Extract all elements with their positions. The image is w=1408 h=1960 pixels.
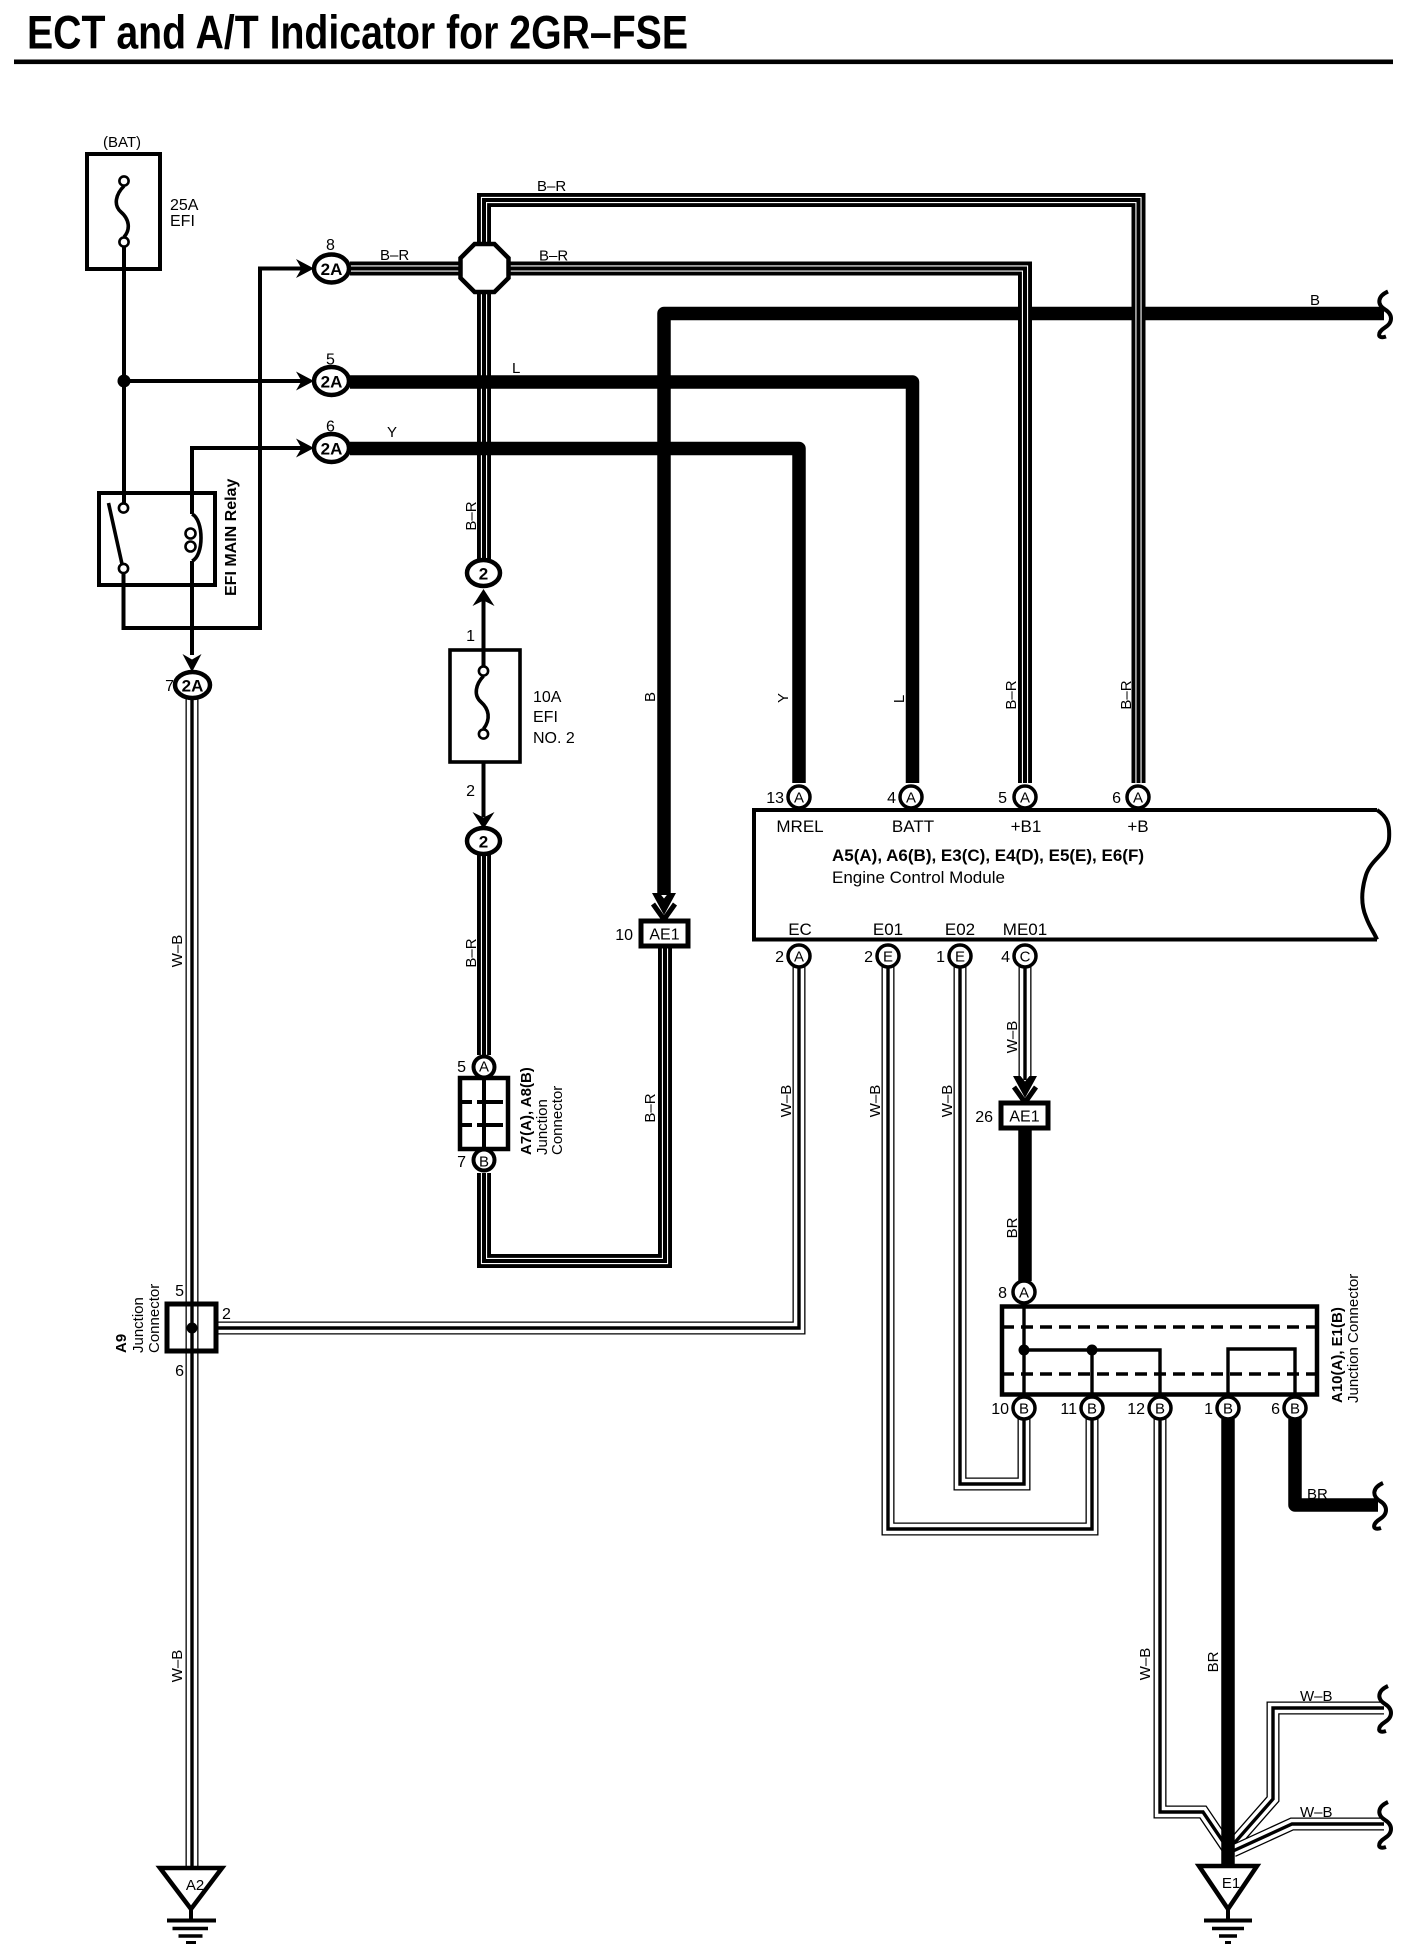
- svg-text:2: 2: [222, 1306, 231, 1323]
- wire BR A10 pin 6 to break: [1295, 1419, 1378, 1505]
- wire Y thick: [350, 449, 799, 784]
- svg-text:E01: E01: [873, 920, 903, 939]
- svg-text:E: E: [955, 949, 965, 966]
- node battery branch: [118, 375, 131, 388]
- svg-text:2A: 2A: [321, 373, 343, 392]
- svg-text:B: B: [1310, 292, 1320, 309]
- ECM pin 13 A: [766, 786, 810, 808]
- arrow into 2A pin 6: [296, 439, 314, 458]
- connector 2A pin 6: [314, 419, 349, 463]
- svg-text:E: E: [883, 949, 893, 966]
- svg-text:B: B: [1223, 1401, 1233, 1418]
- svg-text:ECT and A/T Indicator for 2GR–: ECT and A/T Indicator for 2GR–FSE: [27, 6, 688, 59]
- svg-text:MREL: MREL: [776, 817, 823, 836]
- svg-text:BR: BR: [1205, 1651, 1222, 1672]
- junction connector A10(A) E1(B): [998, 1274, 1362, 1403]
- svg-text:Junction Connector: Junction Connector: [1345, 1274, 1362, 1403]
- svg-text:A: A: [479, 1059, 489, 1076]
- arrow into 2A pin 7: [183, 654, 202, 672]
- wire B-R octagon to ECM pin +B1: [506, 269, 1025, 784]
- svg-text:2: 2: [466, 783, 475, 800]
- svg-text:BR: BR: [1004, 1217, 1021, 1238]
- svg-text:AE1: AE1: [1009, 1109, 1039, 1126]
- node octagon splice: [461, 244, 509, 292]
- svg-text:A: A: [1133, 790, 1143, 807]
- junction connector A9: [113, 1283, 231, 1380]
- svg-text:L: L: [512, 360, 520, 377]
- svg-text:W–B: W–B: [1004, 1021, 1021, 1054]
- svg-text:A: A: [1020, 790, 1030, 807]
- wire W-B ME01 to AE1: [1024, 967, 1026, 1080]
- wire B-R junction B to AE1: [484, 946, 665, 1261]
- break symbol wire BR: [1374, 1483, 1386, 1529]
- svg-text:W–B: W–B: [939, 1085, 956, 1118]
- svg-text:B–R: B–R: [380, 247, 409, 264]
- svg-text:EC: EC: [788, 920, 812, 939]
- svg-text:B: B: [1155, 1401, 1165, 1418]
- svg-text:4: 4: [1001, 949, 1010, 966]
- wire W-B 2A pin7 to ground A2: [191, 698, 193, 1866]
- svg-text:E1: E1: [1222, 1875, 1240, 1892]
- connector AE1 at 26: [975, 1103, 1048, 1128]
- svg-text:7: 7: [165, 678, 174, 695]
- svg-text:6: 6: [175, 1363, 184, 1380]
- fuse 10A EFI NO.2: [450, 650, 575, 762]
- wire W-B A10 pin 12 to ground E1: [1160, 1419, 1228, 1849]
- relay EFI MAIN Relay: [99, 479, 240, 596]
- ECM pin 6 A: [1112, 786, 1149, 808]
- svg-text:12: 12: [1127, 1401, 1145, 1418]
- wire relay coil to 2A pin 7: [190, 561, 194, 655]
- ECM pin 5 A: [998, 786, 1036, 808]
- chevron arrow into AE1 26: [1013, 1076, 1037, 1103]
- ground E1: [1199, 1866, 1257, 1943]
- svg-text:A: A: [906, 790, 916, 807]
- svg-text:C: C: [1020, 949, 1031, 966]
- ECM pin 4 C ME01: [1001, 945, 1036, 967]
- svg-text:L: L: [891, 695, 908, 703]
- svg-text:A: A: [794, 790, 804, 807]
- svg-text:AE1: AE1: [649, 927, 679, 944]
- svg-text:6: 6: [1271, 1401, 1280, 1418]
- ECM pin 2 E E01: [864, 945, 899, 967]
- svg-text:6: 6: [326, 419, 335, 436]
- svg-text:5: 5: [175, 1283, 184, 1300]
- A10 pin 12 B: [1127, 1397, 1171, 1419]
- svg-text:8: 8: [998, 1285, 1007, 1302]
- svg-text:2A: 2A: [321, 260, 343, 279]
- connector 2A pin 7: [165, 672, 210, 698]
- svg-text:10: 10: [615, 927, 633, 944]
- svg-text:A: A: [1019, 1285, 1029, 1302]
- A10 pin 11 B: [1060, 1397, 1103, 1419]
- svg-text:+B: +B: [1127, 817, 1148, 836]
- svg-text:A: A: [794, 949, 804, 966]
- svg-text:13: 13: [766, 790, 784, 807]
- wire B-R oval8 to octagon: [350, 268, 462, 270]
- connector 2A pin 8: [314, 237, 349, 283]
- wire B-R octagon down to connector 2: [483, 288, 485, 560]
- svg-text:Junction: Junction: [130, 1297, 147, 1353]
- svg-text:B–R: B–R: [463, 501, 480, 530]
- svg-text:2A: 2A: [321, 440, 343, 459]
- svg-text:B–R: B–R: [642, 1093, 659, 1122]
- svg-text:EFI: EFI: [170, 213, 195, 230]
- fuse 25A EFI: [87, 134, 199, 269]
- svg-text:EFI MAIN Relay: EFI MAIN Relay: [223, 479, 240, 596]
- connector 2A pin 5: [314, 352, 349, 396]
- svg-text:(BAT): (BAT): [103, 134, 141, 151]
- A10 pin 10 B: [991, 1397, 1035, 1419]
- svg-text:A9: A9: [113, 1334, 130, 1353]
- svg-text:B–R: B–R: [463, 938, 480, 967]
- svg-text:B–R: B–R: [1118, 680, 1135, 709]
- wire W-B lower right to ground E1: [1233, 1824, 1384, 1851]
- svg-text:ME01: ME01: [1003, 920, 1047, 939]
- svg-text:10A: 10A: [533, 689, 562, 706]
- ECM pin 1 E E02: [936, 945, 971, 967]
- svg-text:7: 7: [457, 1154, 466, 1171]
- svg-text:B–R: B–R: [539, 248, 568, 265]
- svg-text:EFI: EFI: [533, 709, 558, 726]
- wire relay switch loop to 2A pin 8: [124, 269, 304, 629]
- svg-text:A10(A), E1(B): A10(A), E1(B): [1329, 1307, 1346, 1403]
- ground A2: [160, 1868, 222, 1943]
- svg-text:4: 4: [887, 790, 896, 807]
- svg-text:A2: A2: [186, 1877, 204, 1894]
- connector 2 lower: [466, 783, 500, 854]
- svg-text:26: 26: [975, 1109, 993, 1126]
- connector 2 upper: [466, 560, 500, 645]
- svg-text:B–R: B–R: [1003, 680, 1020, 709]
- svg-text:10: 10: [991, 1401, 1009, 1418]
- chevron arrow into AE1 10: [652, 893, 676, 920]
- ECM pin 4 A: [887, 786, 922, 808]
- svg-text:Y: Y: [775, 693, 792, 703]
- arrow into 2A pin 5: [296, 372, 314, 391]
- A10 pin 6 B: [1271, 1397, 1306, 1419]
- svg-text:5: 5: [457, 1059, 466, 1076]
- svg-text:A5(A), A6(B), E3(C), E4(D), E5: A5(A), A6(B), E3(C), E4(D), E5(E), E6(F): [832, 846, 1144, 865]
- wire BR A10 pin 1 to ground E1: [1221, 1419, 1235, 1864]
- svg-text:B: B: [479, 1154, 489, 1171]
- svg-text:NO. 2: NO. 2: [533, 730, 575, 747]
- svg-text:B: B: [1087, 1401, 1097, 1418]
- title rule: [14, 60, 1393, 65]
- connector AE1 at 10: [615, 921, 688, 946]
- svg-text:W–B: W–B: [778, 1085, 795, 1118]
- svg-text:5: 5: [326, 352, 335, 369]
- svg-text:B: B: [642, 692, 659, 702]
- svg-text:A7(A), A8(B): A7(A), A8(B): [518, 1067, 535, 1155]
- svg-text:BR: BR: [1307, 1486, 1328, 1503]
- arrow into 2A pin 8: [296, 259, 314, 278]
- svg-text:2A: 2A: [182, 677, 204, 696]
- wire W-B E01 to A10 pin 11: [888, 967, 1092, 1529]
- svg-text:6: 6: [1112, 790, 1121, 807]
- svg-text:B: B: [1290, 1401, 1300, 1418]
- svg-text:B: B: [1019, 1401, 1029, 1418]
- svg-text:BATT: BATT: [892, 817, 934, 836]
- ECM box: [754, 810, 1389, 940]
- svg-text:1: 1: [1204, 1401, 1213, 1418]
- wire branch to 2A pin 5: [124, 379, 303, 383]
- svg-text:W–B: W–B: [1137, 1648, 1154, 1681]
- svg-text:2: 2: [479, 565, 488, 584]
- svg-text:2: 2: [479, 833, 488, 852]
- svg-text:Y: Y: [387, 424, 397, 441]
- svg-text:Engine Control Module: Engine Control Module: [832, 868, 1005, 887]
- svg-text:11: 11: [1060, 1401, 1077, 1418]
- svg-text:W–B: W–B: [867, 1085, 884, 1118]
- svg-text:Connector: Connector: [146, 1284, 163, 1353]
- svg-text:Connector: Connector: [549, 1086, 566, 1155]
- wire arrow to fuse EFI NO.2: [482, 599, 486, 666]
- wire fuse EFI NO.2 to arrow: [482, 762, 486, 817]
- wire BR AE1 to A10 pin 8: [1018, 1127, 1032, 1281]
- A10 pin 1 B: [1204, 1397, 1239, 1419]
- svg-text:W–B: W–B: [169, 1650, 186, 1683]
- svg-text:2: 2: [864, 949, 873, 966]
- wire W-B EC to junction A9: [216, 967, 799, 1328]
- svg-text:25A: 25A: [170, 197, 199, 214]
- wire relay coil to 2A pin 6: [192, 448, 303, 514]
- svg-text:E02: E02: [945, 920, 975, 939]
- wire battery to relay switch: [122, 247, 126, 503]
- break symbol lower W-B: [1379, 1802, 1391, 1848]
- break symbol wire B: [1379, 292, 1391, 338]
- svg-text:2: 2: [775, 949, 784, 966]
- svg-text:8: 8: [326, 237, 335, 254]
- svg-text:+B1: +B1: [1011, 817, 1042, 836]
- break symbol upper W-B: [1379, 1686, 1391, 1732]
- wire B thick: [664, 314, 1384, 896]
- junction connector A7(A) A8(B): [457, 1057, 566, 1172]
- wire B-R octagon top to ECM pin +B: [484, 200, 1139, 783]
- svg-text:1: 1: [466, 628, 475, 645]
- ECM pin 2 A EC: [775, 945, 810, 967]
- wire W-B E02 to A10 pin 10: [960, 967, 1024, 1484]
- wire L thick: [350, 382, 913, 783]
- svg-text:W–B: W–B: [1300, 1688, 1333, 1705]
- svg-text:W–B: W–B: [1300, 1804, 1333, 1821]
- wire W-B upper right to ground E1: [1230, 1708, 1384, 1848]
- svg-text:1: 1: [936, 949, 945, 966]
- wire B-R fuse to junction A: [483, 854, 485, 1055]
- svg-text:W–B: W–B: [169, 935, 186, 968]
- svg-text:5: 5: [998, 790, 1007, 807]
- svg-text:B–R: B–R: [537, 178, 566, 195]
